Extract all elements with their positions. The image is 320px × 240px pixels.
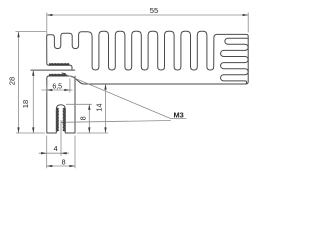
dim 55 line [47, 14, 248, 16]
dim 6.5 extension right [69, 79, 71, 93]
dim 28 line [18, 32, 20, 133]
left edge of fin block [47, 36, 49, 65]
M3 leader lower [61, 121, 171, 123]
serration teeth upper step [49, 63, 69, 65]
svg-text:55: 55 [150, 6, 158, 15]
dim 28 extension top [16, 31, 47, 33]
dim 8h line [47, 165, 75, 167]
dim 8h extension right [74, 136, 76, 169]
dim 18 line [32, 70, 34, 133]
svg-text:14: 14 [94, 103, 103, 111]
mounting leg with M3 slot [47, 76, 75, 133]
svg-text:4: 4 [53, 144, 57, 153]
heatsink profile outline: fins, right comb, bottom edge, leg right face [47, 31, 249, 84]
dim 6.5 line [42, 89, 73, 91]
dim 55 extension right [247, 13, 249, 33]
dim 28/18 extension bottom [16, 132, 45, 134]
M3 slot thread serration left [57, 108, 59, 131]
leader B arrowhead [61, 121, 65, 123]
dim 8v line [88, 104, 90, 133]
serration teeth lower ledge [49, 74, 66, 76]
svg-text:28: 28 [7, 77, 16, 85]
right comb fingers and slots [221, 38, 249, 84]
svg-text:18: 18 [21, 100, 30, 108]
dim 55 extension left [46, 13, 48, 35]
serrated step surface upper [49, 65, 72, 70]
serrated ledge surface lower with step arc [47, 76, 84, 84]
slot centerline [60, 120, 62, 156]
dim 8v top tick [66, 103, 92, 105]
base top surface line / 18-dim extension [31, 69, 75, 71]
svg-text:8: 8 [61, 158, 65, 167]
dim 8v/14 bottom extension [77, 132, 108, 134]
dim 6.5/4/8 extension left (leg left face prolonged) [46, 85, 48, 168]
arrowheads [47, 14, 53, 16]
svg-text:6,5: 6,5 [52, 84, 62, 91]
M3 slot thread serration right [63, 108, 65, 131]
svg-text:8: 8 [79, 116, 88, 120]
svg-text:M3: M3 [173, 110, 183, 119]
dim 4 line [39, 152, 69, 154]
leader A arrowhead [62, 73, 66, 76]
dim 14 line [105, 84, 107, 133]
M3 leader upper [62, 73, 187, 119]
